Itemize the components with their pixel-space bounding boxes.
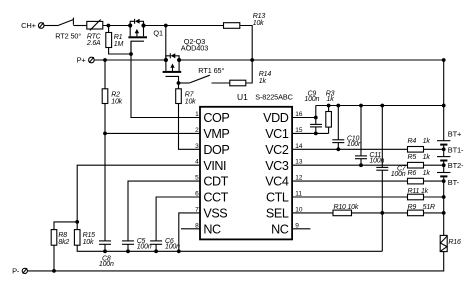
svg-text:VMP: VMP	[203, 127, 229, 141]
node BT2-	[442, 163, 446, 167]
wire R14 to P+ node	[246, 60, 252, 83]
svg-text:AOD403: AOD403	[181, 44, 208, 53]
svg-text:100n: 100n	[391, 171, 406, 178]
resistor R3 1k	[326, 91, 335, 134]
wire R8 to P- rail	[53, 245, 55, 271]
pin 11 label CTL	[266, 191, 302, 205]
node BT-	[442, 179, 446, 183]
svg-text:1k: 1k	[259, 78, 267, 85]
svg-text:DOP: DOP	[203, 143, 229, 157]
node C8 on VSS rail	[103, 249, 107, 253]
wire pin 16 VDD	[292, 106, 316, 118]
wire RT1 to R14	[212, 82, 230, 84]
svg-text:VINI: VINI	[203, 159, 226, 173]
wire R9 to battery column	[424, 212, 444, 214]
svg-text:NC: NC	[203, 222, 221, 236]
node C11 top	[359, 104, 363, 108]
resistor R15 10k	[74, 222, 95, 246]
resistor R13 10k	[224, 13, 266, 28]
wire node A down to Q2	[165, 26, 167, 61]
node C6 on VSS rail	[154, 249, 158, 253]
transistor Q2-Q3 AOD403	[163, 37, 209, 83]
svg-text:6: 6	[195, 191, 199, 198]
svg-text:1M: 1M	[114, 41, 124, 48]
wire Q2 to right P+ rail	[179, 59, 444, 61]
svg-text:CH+: CH+	[21, 21, 36, 30]
pin 9 label NC	[271, 222, 310, 236]
fuse resistor R16	[440, 235, 461, 251]
resistor R9 51R	[408, 204, 436, 216]
svg-text:VC3: VC3	[265, 159, 289, 173]
svg-text:VC1: VC1	[265, 127, 289, 141]
svg-text:R11 1k: R11 1k	[408, 188, 429, 195]
node R9 / R16 column	[442, 211, 446, 215]
wire pin 6 CCT to C6	[156, 197, 200, 241]
terminal CH+	[21, 21, 44, 30]
wire pin 15 VC1	[292, 132, 329, 134]
node VINI divider	[75, 220, 79, 224]
svg-text:8k2: 8k2	[58, 239, 69, 246]
node BT+ column on P+ rail	[442, 58, 446, 62]
wire R5 to BT2-	[424, 164, 444, 166]
capacitor C5 100n	[122, 238, 152, 251]
svg-text:100n: 100n	[165, 244, 180, 251]
svg-text:RT1 65°: RT1 65°	[198, 66, 224, 75]
wire Q1 to node A	[144, 25, 224, 27]
terminal P-	[12, 267, 27, 276]
pin 4 label VINI	[195, 159, 226, 173]
pin 6 label CCT	[195, 191, 229, 205]
pin 10 label SEL	[266, 206, 303, 220]
svg-text:100n: 100n	[99, 261, 114, 268]
svg-text:P-: P-	[12, 267, 20, 276]
wire RT2 to RTC	[73, 25, 86, 27]
wire pin 4 VINI to R15/R8	[77, 165, 200, 222]
wire pin 14 VC2 to R4	[292, 148, 407, 150]
wire R11 to battery column	[424, 196, 444, 198]
svg-text:NC: NC	[271, 222, 289, 236]
node C7 top	[380, 104, 384, 108]
svg-text:P+: P+	[77, 56, 87, 65]
svg-text:BT+: BT+	[448, 129, 462, 138]
node R1 / Q1 gate	[129, 52, 133, 56]
wire Q1 gate / R1 to pin 1 COP	[131, 41, 200, 117]
svg-text:1: 1	[195, 111, 199, 118]
resistor R5 1k	[408, 154, 431, 168]
resistor R1 1M	[106, 26, 124, 48]
pin 12 label VC4	[265, 175, 303, 189]
svg-text:R4 1k: R4 1k	[408, 138, 431, 145]
svg-text:VC4: VC4	[265, 175, 289, 189]
pin 3 label DOP	[195, 143, 229, 157]
pin 15 label VC1	[265, 127, 303, 141]
wire pin 7 VSS to ground rail	[179, 213, 200, 251]
terminal P+	[77, 56, 95, 65]
thermal switch RT1 65	[189, 66, 224, 83]
wire battery column to R16	[443, 181, 445, 235]
PTC fuse RTC 2.6A	[86, 20, 103, 48]
pin 7 label VSS	[195, 206, 227, 220]
battery cell BT1	[437, 129, 462, 149]
pin 5 label CDT	[195, 175, 229, 189]
svg-text:10k: 10k	[253, 20, 264, 27]
pin 2 label VMP	[195, 127, 229, 141]
pin 16 label VDD	[263, 111, 303, 125]
resistor R8 8k2	[51, 222, 77, 246]
wire gate to RT1	[179, 82, 190, 84]
capacitor C8 100n	[99, 241, 114, 268]
wire VSS rail to SEL column	[381, 213, 383, 251]
wire R2 to VMP node	[104, 104, 106, 134]
wire pin 12 VC4 to R6	[292, 180, 407, 182]
svg-text:CTL: CTL	[266, 191, 289, 205]
pin 13 label VC3	[265, 159, 303, 173]
node A (Q1 drain / R13 / Q2 link)	[164, 24, 168, 28]
wire P+ rail left	[94, 59, 166, 61]
node VSS on rail	[177, 249, 181, 253]
transistor Q1	[128, 19, 163, 54]
svg-text:CCT: CCT	[203, 191, 228, 205]
node R11 column	[442, 195, 446, 199]
capacitor C7 100n	[376, 106, 406, 213]
svg-text:7: 7	[195, 206, 199, 213]
node BT1-	[442, 147, 446, 151]
wire VMP node down to C8	[104, 133, 106, 241]
wire R10 to R9	[352, 212, 408, 214]
capacitor C10 100n	[332, 106, 362, 150]
svg-text:100n: 100n	[347, 141, 362, 148]
node C5 on VSS rail	[126, 249, 130, 253]
node C10 / pin 14	[336, 147, 340, 151]
wire R1 bottom to Q1 gate node	[109, 48, 131, 55]
svg-text:3: 3	[195, 143, 199, 150]
svg-text:VSS: VSS	[203, 207, 227, 221]
wire pin 5 CDT to C5	[128, 181, 200, 241]
svg-text:S-8225ABC: S-8225ABC	[255, 93, 293, 102]
svg-text:VDD: VDD	[263, 111, 289, 125]
resistor R6 1k	[408, 170, 431, 184]
node Q2 gate	[177, 81, 181, 85]
svg-text:VC2: VC2	[265, 143, 289, 157]
wire R15 to VSS rail	[77, 245, 382, 251]
svg-text:R6 1k: R6 1k	[408, 170, 431, 177]
node VDD rail / battery column	[442, 104, 446, 108]
svg-text:R10 10k: R10 10k	[334, 204, 359, 211]
wire VMP to pin 2	[105, 132, 200, 134]
svg-text:BT2-: BT2-	[448, 161, 464, 170]
svg-text:100n: 100n	[304, 96, 319, 103]
wire R13 to P+ rail	[240, 26, 252, 61]
thermal switch RT2	[55, 18, 81, 41]
svg-text:5: 5	[195, 175, 199, 182]
svg-text:BT1-: BT1-	[448, 145, 464, 154]
node CH rail / R1 junction	[107, 24, 111, 28]
resistor R14 1k	[230, 71, 272, 86]
svg-text:10k: 10k	[185, 99, 196, 106]
svg-text:2.6A: 2.6A	[86, 40, 101, 47]
node C9 / pin 15	[314, 132, 318, 136]
resistor R4 1k	[408, 138, 431, 152]
wire P- rail	[27, 252, 443, 271]
svg-text:RT2 50°: RT2 50°	[55, 31, 81, 40]
svg-text:R9 51R: R9 51R	[408, 204, 436, 211]
svg-text:4: 4	[195, 159, 199, 166]
node R3 top	[327, 104, 331, 108]
svg-text:CDT: CDT	[203, 175, 228, 189]
capacitor C9 100n	[304, 91, 322, 134]
node C10 top	[336, 104, 340, 108]
svg-text:10k: 10k	[83, 239, 94, 246]
svg-text:2: 2	[195, 127, 199, 134]
svg-text:COP: COP	[203, 111, 229, 125]
wire pin 13 VC3 to R5	[292, 164, 407, 166]
node VDD	[314, 116, 318, 120]
pin 14 label VC2	[265, 143, 303, 157]
wire pin 10 SEL to R10	[292, 212, 333, 214]
capacitor C11 100n	[355, 106, 384, 166]
wire R6 to BT-	[424, 180, 444, 182]
op-amp U1 S-8225ABC body	[200, 92, 293, 239]
node VMP	[103, 132, 107, 136]
node P+/R2	[103, 58, 107, 62]
svg-text:10k: 10k	[111, 98, 122, 105]
svg-text:BT-: BT-	[448, 178, 460, 187]
wire R4 to BT1-	[424, 148, 444, 150]
resistor R11 1k	[408, 188, 429, 200]
wire R7 to pin 3 DOP	[179, 104, 201, 150]
battery cell BT3	[437, 161, 464, 181]
svg-text:SEL: SEL	[266, 207, 289, 221]
svg-text:Q1: Q1	[153, 29, 163, 38]
resistor R2 10k	[102, 60, 122, 105]
wire VDD top rail	[316, 105, 444, 107]
resistor R7 10k	[176, 83, 196, 106]
svg-text:1k: 1k	[327, 96, 335, 103]
battery cell BT2	[437, 145, 464, 165]
wire CH+ to RT2	[44, 25, 58, 27]
wire pin 11 CTL to R11	[292, 196, 407, 198]
svg-text:100n: 100n	[137, 244, 152, 251]
node R8 / P- rail	[52, 269, 56, 273]
capacitor C6 100n	[150, 238, 180, 251]
resistor R10 10k	[333, 204, 359, 216]
pin 1 label COP	[195, 111, 229, 125]
svg-text:U1: U1	[237, 92, 248, 102]
wire battery column top	[443, 60, 445, 141]
node C11 / pin 13	[359, 163, 363, 167]
node C7 / pin 10 / SEL	[380, 211, 384, 215]
node R13/R14 on P+ rail	[250, 58, 254, 62]
svg-text:R16: R16	[448, 239, 461, 246]
pin 8 label NC	[181, 222, 221, 236]
wire RTC to Q1	[103, 25, 130, 27]
svg-text:R5 1k: R5 1k	[408, 154, 431, 161]
